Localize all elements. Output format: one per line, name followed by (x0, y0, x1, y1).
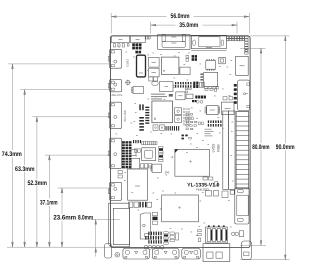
svg-text:52.3mm: 52.3mm (27, 180, 47, 187)
dimension 35.0mm top (151, 21, 237, 34)
small parts scatter B (186, 114, 204, 130)
small caps row (134, 149, 140, 152)
connector J8 left USB (108, 138, 121, 168)
IC U11 (222, 102, 235, 114)
comb P4 (208, 120, 222, 126)
IC U14 (151, 164, 162, 172)
svg-text:RGB: RGB (217, 144, 221, 152)
label LVDS RGB vertical (212, 143, 221, 152)
SIM connector J14 (140, 213, 150, 239)
connector J3 micro-USB top (158, 34, 190, 49)
buzzer B1 (232, 231, 244, 237)
label USB-OTG (111, 94, 123, 97)
shield can M1 (128, 169, 148, 200)
connector J10 right edge (238, 80, 250, 110)
dimension 23.6mm left (53, 188, 109, 247)
svg-text:USB-OTG: USB-OTG (111, 94, 123, 97)
IC U12 flash (142, 148, 156, 161)
silk text block (205, 129, 214, 136)
shield can M3 (162, 195, 199, 222)
test pad top-right (245, 50, 247, 52)
svg-text:63.3mm: 63.3mm (15, 166, 35, 173)
connector J4 HDMI top (191, 35, 226, 50)
pin ladder J12 (236, 112, 249, 189)
capacitor bank C3 2x2 (186, 55, 197, 61)
IC U3 (206, 59, 216, 70)
silk micro text (151, 94, 173, 100)
test pads TP1 (196, 100, 203, 103)
battery block nubs (208, 225, 225, 227)
dimension 8.0mm left (78, 215, 120, 257)
parts column right of battery block (198, 230, 201, 242)
board date FEB.2023 (196, 187, 209, 191)
regulator U6 (160, 82, 176, 92)
dimension 74.3mm left (1, 64, 109, 247)
connector J13 right lower (235, 188, 249, 224)
PCB board outline (110, 36, 250, 248)
pin column left of J10 (234, 84, 237, 104)
svg-text:90.0mm: 90.0mm (276, 144, 295, 151)
label USB vertical (125, 59, 129, 67)
inductor L1 (149, 57, 160, 67)
svg-text:23.6mm: 23.6mm (53, 215, 76, 222)
left dimensions bottom reference line (7, 246, 111, 248)
small boxes above FPC (223, 97, 232, 100)
svg-text:USB3: USB3 (125, 59, 129, 67)
parts column G (164, 232, 179, 244)
shield can M2 (175, 149, 209, 176)
svg-text:0-0: 0-0 (165, 171, 170, 175)
dimension 63.3mm left (14, 90, 109, 247)
IC U10 8-pin (205, 106, 220, 115)
label 0-0 (165, 171, 170, 175)
dimension 90.0mm right (240, 36, 296, 260)
comb P8 (159, 146, 163, 161)
small box (131, 150, 137, 156)
connector J16 bottom (152, 248, 179, 259)
label SD-USB vertical (123, 110, 127, 121)
small parts row C (203, 177, 234, 198)
svg-text:LVDS: LVDS (212, 143, 216, 152)
svg-text:74.3mm: 74.3mm (2, 151, 22, 158)
dimension 37.1mm left (38, 155, 109, 247)
electrolytic capacitor C2 (dark) (137, 55, 146, 77)
svg-text:56.0mm: 56.0mm (171, 13, 190, 20)
svg-text:80.0mm: 80.0mm (252, 144, 269, 151)
transistor Q1 (131, 87, 143, 94)
FPC connector J11 tall (223, 111, 235, 189)
connector J7 left USB (108, 102, 121, 128)
connector J9 left (108, 182, 121, 200)
memory pad grid P6 (122, 141, 132, 168)
svg-text:8.0mm: 8.0mm (78, 215, 93, 222)
IC U2 (180, 67, 190, 75)
connector J6 left USB-OTG (108, 80, 121, 92)
small parts row E (128, 202, 151, 208)
svg-text:FEB.2023: FEB.2023 (196, 187, 209, 191)
mounting hole H2 (115, 252, 120, 257)
small parts row A (149, 77, 158, 85)
svg-text:SD-USB: SD-USB (123, 110, 127, 121)
small parts scatter D (185, 88, 217, 93)
comb P3 below SoC (166, 126, 180, 131)
pin header rows top-right (227, 36, 248, 54)
capacitor array C1 (132, 43, 141, 53)
comb P7 (133, 140, 157, 145)
pads top edge (146, 36, 150, 39)
dimension 80.0mm right (240, 48, 272, 245)
dimension 52.3mm left (27, 117, 110, 247)
connector J18 USB bottom (203, 244, 230, 262)
parts between connectors (118, 171, 122, 179)
svg-text:37.1mm: 37.1mm (40, 200, 58, 207)
mounting hole H1 (125, 80, 131, 86)
SD card area outline (109, 203, 130, 247)
connector J1 top-left (111, 36, 129, 43)
connector J5 left (power) (108, 49, 121, 68)
dimension 56.0mm top (111, 12, 249, 34)
regulator U13 (130, 158, 140, 169)
SoC U9 (152, 101, 173, 123)
capacitor row C4 (192, 96, 206, 103)
pads below J1 (113, 44, 129, 47)
crystal Y1 (219, 57, 226, 64)
small row right of U13 (141, 164, 152, 168)
comb P2 left of SoC (145, 107, 149, 124)
connector J2 top-left (131, 36, 146, 43)
IC U8 (186, 94, 193, 99)
IC U7 (176, 92, 185, 100)
diodes D1 D2 (153, 125, 165, 130)
svg-text:35.0mm: 35.0mm (179, 22, 198, 29)
connector J19 bottom-right (242, 241, 252, 260)
corner tab bottom-left (105, 244, 112, 258)
resistor cluster R1 (204, 86, 218, 89)
switches SW1 SW2 (175, 108, 182, 123)
IC U4 (200, 73, 217, 87)
fiducial cross (171, 156, 173, 158)
dark caps row H (182, 135, 192, 140)
inductor L2 (149, 68, 160, 77)
battery connector block J20 (206, 227, 228, 243)
silkscreen designator specks (116, 46, 237, 236)
connector J15 bottom (123, 248, 150, 259)
box U5 right edge (236, 56, 249, 75)
connector J17 bottom (182, 248, 201, 259)
comb column P5 (139, 104, 144, 130)
IC U1 PMIC (161, 57, 179, 74)
comb cluster P9 (145, 232, 162, 244)
terminal circles row (144, 245, 164, 249)
parts column F (152, 212, 157, 224)
board title YL-1335-V1.0 (187, 183, 219, 189)
test point grid TP2 (183, 108, 190, 125)
pin comb P1 (175, 82, 204, 88)
